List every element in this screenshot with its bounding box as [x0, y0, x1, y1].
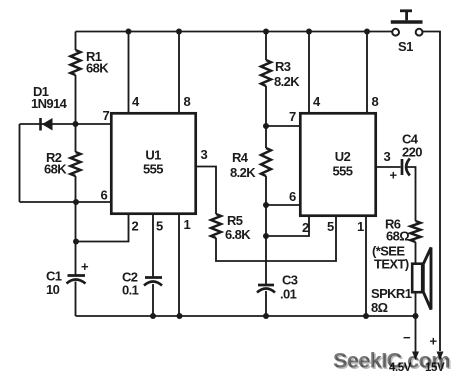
- svg-text:TEXT): TEXT): [374, 257, 409, 272]
- svg-text:10: 10: [46, 282, 60, 297]
- svg-text:555: 555: [143, 162, 163, 177]
- svg-text:1: 1: [184, 217, 191, 232]
- svg-text:7: 7: [289, 109, 296, 124]
- svg-text:+: +: [81, 259, 89, 274]
- svg-text:8.2K: 8.2K: [230, 165, 256, 180]
- svg-text:4: 4: [313, 94, 321, 109]
- svg-text:R4: R4: [232, 150, 249, 165]
- svg-text:68K: 68K: [86, 61, 109, 76]
- svg-text:3: 3: [201, 147, 208, 162]
- svg-text:6: 6: [289, 189, 296, 204]
- svg-text:.01: .01: [280, 287, 297, 302]
- svg-text:5: 5: [156, 219, 163, 234]
- svg-text:8: 8: [184, 94, 191, 109]
- svg-text:555: 555: [333, 164, 353, 179]
- svg-text:2: 2: [302, 220, 309, 235]
- svg-text:R3: R3: [275, 59, 291, 74]
- svg-text:0.1: 0.1: [122, 283, 139, 298]
- svg-text:4: 4: [132, 94, 140, 109]
- svg-text:C3: C3: [282, 273, 298, 288]
- svg-text:SPKR1: SPKR1: [371, 286, 412, 301]
- svg-text:6.8K: 6.8K: [225, 227, 251, 242]
- svg-text:68K: 68K: [44, 162, 67, 177]
- svg-text:68Ω: 68Ω: [386, 229, 409, 244]
- svg-text:8.2K: 8.2K: [274, 74, 300, 89]
- svg-text:5: 5: [327, 219, 334, 234]
- svg-text:1N914: 1N914: [31, 96, 68, 111]
- svg-text:U1: U1: [145, 148, 161, 163]
- svg-text:2: 2: [132, 219, 139, 234]
- svg-text:−: −: [403, 330, 411, 345]
- svg-text:220: 220: [402, 145, 422, 160]
- svg-text:SeekIC.com: SeekIC.com: [333, 349, 450, 373]
- svg-text:+: +: [390, 168, 398, 183]
- svg-text:+: +: [430, 334, 438, 349]
- svg-text:8Ω: 8Ω: [371, 300, 388, 315]
- svg-text:1: 1: [357, 219, 364, 234]
- svg-text:8: 8: [372, 94, 379, 109]
- svg-text:R5: R5: [227, 213, 243, 228]
- svg-text:U2: U2: [335, 149, 351, 164]
- svg-text:6: 6: [101, 188, 108, 203]
- svg-text:S1: S1: [398, 39, 413, 54]
- svg-text:7: 7: [103, 108, 110, 123]
- svg-text:3: 3: [384, 149, 391, 164]
